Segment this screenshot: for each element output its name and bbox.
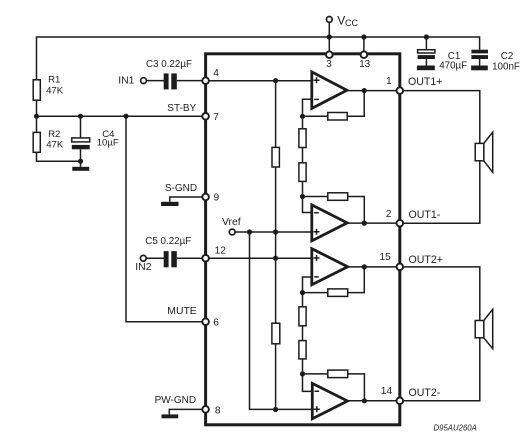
junction dots divider chain 2 [300, 290, 305, 377]
terminal circle IN2 [140, 255, 146, 261]
wire Vref to op-amp U1B non-inverting input [235, 231, 312, 233]
capacitor C2 plates [471, 50, 488, 59]
wire IN2 to C5 [146, 257, 164, 259]
svg-text:7: 7 [213, 112, 219, 123]
op-amp U1D [312, 383, 347, 418]
ground bar below C4 [72, 167, 89, 171]
wire pin 12 row to op-amp U1C non-inverting input [206, 257, 312, 259]
junction dot pin 4 row [273, 78, 278, 83]
wire R2 bottom to C4 node [37, 152, 81, 161]
pin 14 circle [397, 398, 404, 405]
svg-text:ST-BY: ST-BY [167, 103, 196, 114]
wire C1 stem [425, 37, 427, 50]
resistor input bias upper [272, 147, 279, 167]
wire C1 to ground [425, 59, 427, 66]
junction dot pin 12 row [273, 256, 278, 261]
wire Vref feed down to op-amp U1D non-inverting input [250, 232, 313, 409]
resistor feedback U1B [328, 193, 348, 201]
svg-text:PW-GND: PW-GND [155, 395, 196, 406]
capacitor C5 plates [164, 251, 177, 267]
wire input bias column through R3 R4 [275, 81, 277, 410]
junction dots Vref row [247, 229, 278, 234]
svg-text:MUTE: MUTE [167, 306, 197, 317]
pin 3 circle [326, 51, 333, 58]
wire ST-BY to MUTE link and MUTE row to pin 6 [126, 116, 206, 322]
svg-text:IN1: IN1 [118, 76, 134, 87]
op-amp U1B [312, 205, 347, 241]
svg-text:OUT1+: OUT1+ [408, 76, 442, 88]
wire pin 8 to PW-GND ground [169, 409, 205, 414]
wire C4 top [80, 116, 82, 138]
resistor input bias lower [272, 323, 280, 344]
resistor divider chain 2 lower [299, 341, 306, 359]
resistor R2 [33, 132, 40, 152]
label R2 value [46, 129, 64, 150]
label VCC [337, 13, 358, 28]
pin 1 circle [397, 87, 404, 94]
capacitor C1 plates [418, 50, 435, 59]
pin 7 circle [202, 113, 209, 120]
svg-text:10µF: 10µF [97, 137, 119, 148]
wire op-amp U1B output to pin 2 [347, 222, 400, 224]
svg-text:9: 9 [214, 193, 220, 204]
wire op-amp U1D output to pin 14 [348, 400, 400, 402]
svg-text:4: 4 [213, 68, 219, 79]
IC U1 body outline [206, 54, 400, 425]
svg-text:12: 12 [215, 246, 227, 257]
svg-text:C2: C2 [501, 51, 514, 62]
ground bar below C1 [417, 66, 435, 71]
wire feedback R7 row of U1A [303, 91, 365, 117]
svg-text:OUT2-: OUT2- [409, 387, 441, 399]
svg-text:1: 1 [386, 76, 392, 87]
capacitor C3 plates [164, 73, 177, 89]
svg-text:3: 3 [326, 59, 332, 70]
wire op-amp U1A output to pin 1 [347, 90, 400, 92]
svg-text:IN2: IN2 [135, 262, 151, 273]
junction dot C4 ground node [78, 159, 83, 164]
svg-text:6: 6 [213, 318, 219, 329]
svg-text:2: 2 [386, 209, 392, 220]
terminal circle VCC [326, 17, 332, 23]
svg-text:C5 0.22µF: C5 0.22µF [145, 236, 191, 247]
resistor R1 [33, 80, 40, 100]
junction dots op-amp outputs [362, 88, 367, 403]
wire OUT2- to speaker LS2 [400, 338, 480, 401]
pin 13 circle [361, 51, 368, 58]
svg-text:S-GND: S-GND [165, 183, 197, 194]
pin 2 circle [397, 220, 404, 227]
wire pin 13 stem [363, 37, 365, 51]
wire OUT1- to speaker LS1 [400, 161, 480, 223]
svg-text:R1: R1 [48, 75, 60, 86]
resistor feedback U1D [328, 370, 348, 378]
wire VCC stem [328, 22, 330, 51]
svg-text:13: 13 [359, 59, 370, 70]
resistor divider chain 2 upper [299, 307, 306, 326]
svg-text:Vref: Vref [222, 217, 241, 228]
svg-text:470µF: 470µF [439, 61, 467, 72]
wire R2 top [36, 116, 38, 132]
wire feedback R9 row of U1C [303, 267, 365, 293]
wire inverting network of U1A and U1B [303, 99, 312, 212]
junction dots divider chain 1 [300, 114, 305, 199]
svg-text:100nF: 100nF [492, 62, 520, 73]
wire top supply rail from R1 top to C2 [37, 37, 480, 80]
resistor feedback U1A [328, 113, 347, 121]
wire IN1 to C3 [146, 80, 164, 82]
pin 6 circle [202, 318, 209, 325]
wire op-amp U1C output to pin 15 [348, 266, 400, 268]
wire C2 to ground [479, 59, 481, 66]
speaker LS1 [475, 132, 493, 172]
speaker LS2 [475, 309, 493, 348]
svg-text:CC: CC [345, 18, 358, 28]
resistor divider chain 1 upper [299, 129, 306, 148]
wire OUT1+ to speaker LS1 [400, 91, 480, 144]
junction dots ST-BY row [34, 114, 129, 119]
junction dot U1D input row [273, 407, 278, 412]
wire C3 to pin 4 [177, 80, 206, 82]
wire OUT2+ to speaker LS2 [400, 267, 480, 321]
ground bar below C2 [471, 66, 488, 71]
wire ST-BY row to pin 7 [37, 115, 206, 117]
label C1 value [439, 51, 467, 72]
svg-text:14: 14 [381, 386, 393, 397]
resistor feedback U1C [328, 289, 348, 297]
svg-text:OUT1-: OUT1- [409, 209, 441, 221]
wire pin 4 row to op-amp U1A non-inverting input [206, 80, 312, 82]
svg-text:15: 15 [380, 252, 392, 263]
ground bar PW-GND [162, 414, 179, 418]
svg-text:8: 8 [215, 406, 221, 417]
op-amp U1C [312, 249, 348, 285]
wire feedback R8 row of U1B [303, 197, 365, 224]
pin 9 circle [202, 194, 209, 201]
svg-text:C3 0.22µF: C3 0.22µF [146, 59, 192, 70]
label C4 value [97, 129, 119, 148]
terminal circle Vref [229, 229, 235, 235]
svg-text:R2: R2 [48, 129, 60, 140]
wire C4 bottom to ground [80, 149, 82, 167]
resistor divider chain 1 lower [299, 163, 306, 182]
ground bar S-GND [161, 202, 178, 206]
wire C5 to pin 12 [177, 257, 206, 259]
capacitor C4 plates [72, 138, 90, 149]
pin 15 circle [397, 264, 404, 271]
svg-text:47K: 47K [46, 85, 64, 96]
pin 12 circle [202, 255, 209, 262]
junction dots top rail [327, 34, 429, 39]
terminal circle IN1 [141, 78, 147, 84]
svg-text:D95AU260A: D95AU260A [434, 424, 477, 433]
op-amp U1A [312, 72, 347, 109]
label R1 value [46, 75, 64, 97]
pin 8 circle [202, 406, 209, 413]
svg-text:OUT2+: OUT2+ [409, 254, 443, 266]
svg-text:47K: 47K [46, 139, 64, 150]
wire feedback R10 row of U1D [303, 374, 365, 401]
label C2 value [492, 51, 520, 73]
pin 4 circle [202, 77, 209, 84]
wire R1 bottom to ST-BY rail [36, 100, 38, 116]
wire pin 9 to S-GND ground [170, 197, 206, 202]
wire inverting network of U1C and U1D [303, 277, 313, 391]
